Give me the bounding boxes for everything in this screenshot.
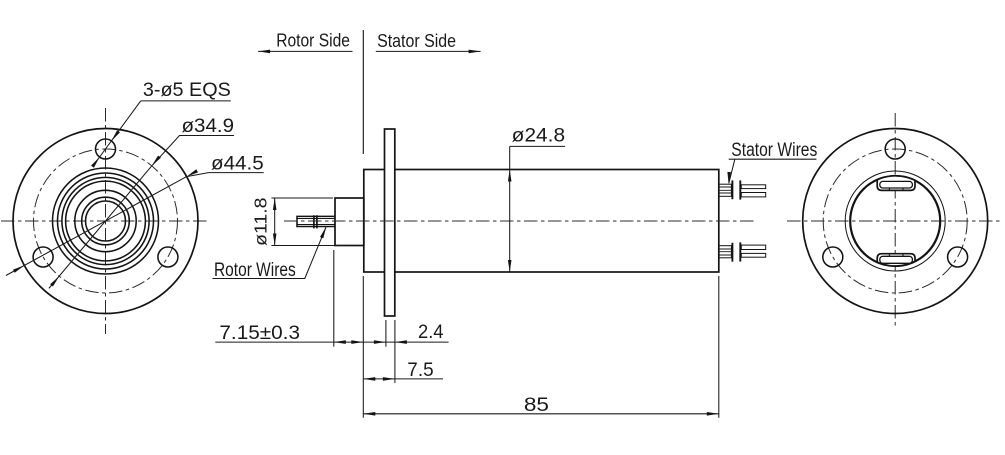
- side view: flange (white-filled, covers body edges): [385, 129, 395, 316]
- svg-text:ø11.8: ø11.8: [251, 198, 271, 246]
- dimension 2.4: arrowheads (outside, pointing inward): [374, 340, 386, 344]
- right view: top connector inner socket: [880, 181, 913, 188]
- dimension 2.4: dim line through flange: [363, 341, 448, 343]
- stator wires top: connector band 1: [731, 180, 733, 199]
- svg-text:ø34.9: ø34.9: [182, 115, 235, 137]
- right view: bolt circle (dash-dot): [823, 149, 967, 293]
- rotor wire bundle: binding bands: [314, 215, 317, 228]
- left view: concentric ring r53.0: [53, 168, 159, 274]
- dimension 85: dim line: [363, 413, 719, 415]
- dimension 7.5: dim line: [363, 378, 443, 380]
- extension line: body right, down to 85 dim: [718, 276, 720, 418]
- svg-text:ø24.8: ø24.8: [512, 125, 565, 147]
- left view: concentric ring r20.0: [86, 201, 126, 241]
- stator wires bottom: wire pair going right: [741, 253, 765, 257]
- left view: bolt hole lower-left: [33, 247, 53, 267]
- side view: main body rectangle: [364, 170, 719, 273]
- svg-text:Rotor Wires: Rotor Wires: [214, 259, 296, 281]
- dimension 3-o5 EQS: leader line through top hole: [96, 101, 140, 162]
- label: Rotor Side arrow line: [258, 50, 352, 52]
- svg-text:Stator Side: Stator Side: [377, 30, 456, 51]
- dimension o11.8: extension lines from hub corners: [271, 198, 345, 246]
- extension line: flange left: [385, 320, 387, 347]
- dimension o34.9: diagonal diameter line: [49, 166, 152, 289]
- left view: concentric ring r48.0: [58, 173, 154, 269]
- dimension 3-o5: arrowhead upper-right of hole: [111, 130, 120, 141]
- svg-text:Stator Wires: Stator Wires: [731, 139, 817, 161]
- left view: bolt circle (o34.9, dash-dot): [34, 149, 178, 293]
- rotor wire bundle: inner wire lines: [297, 219, 335, 225]
- left view: bolt hole lower-right: [158, 247, 178, 267]
- dimension o24.8: vertical dim line: [509, 146, 511, 271]
- label: Stator Side arrow line: [376, 50, 481, 52]
- rotor/stator dividing line: [362, 30, 364, 154]
- svg-text:85: 85: [524, 395, 549, 416]
- dimension o44.5: diagonal diameter line: [6, 177, 187, 276]
- left view: concentric ring r23.8: [82, 197, 130, 245]
- dimension o44.5: leader to text: [187, 173, 264, 177]
- dimension 7.5: arrowheads: [363, 377, 375, 381]
- stator wires top: stub wires out of body: [719, 184, 732, 196]
- left view: vertical centerline: [105, 108, 107, 334]
- dimension o34.9: arrowhead upper-right: [152, 156, 161, 166]
- extension line: body left, down to 85 dim: [362, 276, 364, 418]
- stator wires bottom: connector band 2: [739, 242, 741, 261]
- stator wires bottom: stub wires out of body: [719, 246, 732, 258]
- svg-text:3-ø5 EQS: 3-ø5 EQS: [143, 79, 231, 101]
- right view: bottom connector inner socket: [880, 256, 913, 263]
- right view: flange outer circle: [803, 129, 988, 314]
- side view: horizontal centerline: [284, 220, 757, 222]
- right view: vertical centerline: [894, 113, 896, 329]
- dimension 85: arrowheads: [363, 412, 375, 416]
- dimension o11.8: vertical dim line: [274, 198, 276, 246]
- svg-text:7.5: 7.5: [407, 360, 433, 381]
- side view: hub (o11.8 section): [335, 198, 364, 246]
- dimension o34.9: arrowhead lower-left: [50, 276, 59, 286]
- svg-text:2.4: 2.4: [418, 322, 444, 343]
- left view: flange outer circle (o44.5): [13, 129, 198, 314]
- right view: body circle r50: [845, 171, 945, 271]
- right view: bolt hole lower-left: [823, 247, 843, 267]
- left view: horizontal centerline: [1, 220, 210, 222]
- left view: bolt hole top: [96, 139, 116, 159]
- svg-text:ø44.5: ø44.5: [211, 153, 264, 175]
- dimension o24.8: top arrowhead: [508, 170, 512, 182]
- dimension o44.5: arrowhead lower-left: [13, 265, 24, 272]
- right view: bore circle r45: [850, 176, 940, 266]
- right view: horizontal centerline: [787, 220, 1003, 222]
- dimension o24.8: bottom arrowhead: [508, 260, 512, 272]
- right view: bottom connector ticks: [889, 254, 903, 257]
- stator wires bottom: connector band 1: [731, 243, 733, 262]
- dimension 7.15: arrowheads (inside, pointing outward): [334, 340, 346, 344]
- svg-text:7.15±0.3: 7.15±0.3: [219, 323, 300, 344]
- dimension 3-o5: arrowhead lower-left of hole: [91, 157, 100, 168]
- left view: concentric ring r30.7: [75, 190, 136, 251]
- extension line: hub left (x=333.8): [333, 250, 335, 347]
- svg-text:Rotor Side: Rotor Side: [276, 30, 350, 51]
- right view: bolt hole lower-right: [948, 247, 968, 267]
- right view: top connector ticks: [889, 188, 903, 190]
- label: Stator Wires arrowhead: [727, 172, 731, 184]
- label: Rotor Wires arrowhead: [320, 227, 326, 239]
- dimension o44.5: arrowhead upper-right: [187, 169, 198, 176]
- rotor wire bundle: outer outline: [297, 216, 335, 226]
- extension line: flange right: [394, 320, 396, 383]
- stator wires top: connector band 2: [739, 180, 741, 199]
- left view: concentric ring r43.6: [62, 177, 149, 264]
- dimension o34.9: leader to text: [152, 136, 234, 166]
- dimension o11.8: arrowheads: [273, 198, 277, 210]
- right view: bottom connector outer shell: [877, 254, 915, 266]
- right view: bolt hole top: [885, 139, 905, 159]
- left view: concentric ring r39.9: [66, 181, 146, 261]
- stator wires top: wire pair going right: [741, 185, 765, 189]
- right view: top connector outer shell: [877, 176, 915, 191]
- dimension 7.15+-0.3: dim line: [215, 341, 363, 343]
